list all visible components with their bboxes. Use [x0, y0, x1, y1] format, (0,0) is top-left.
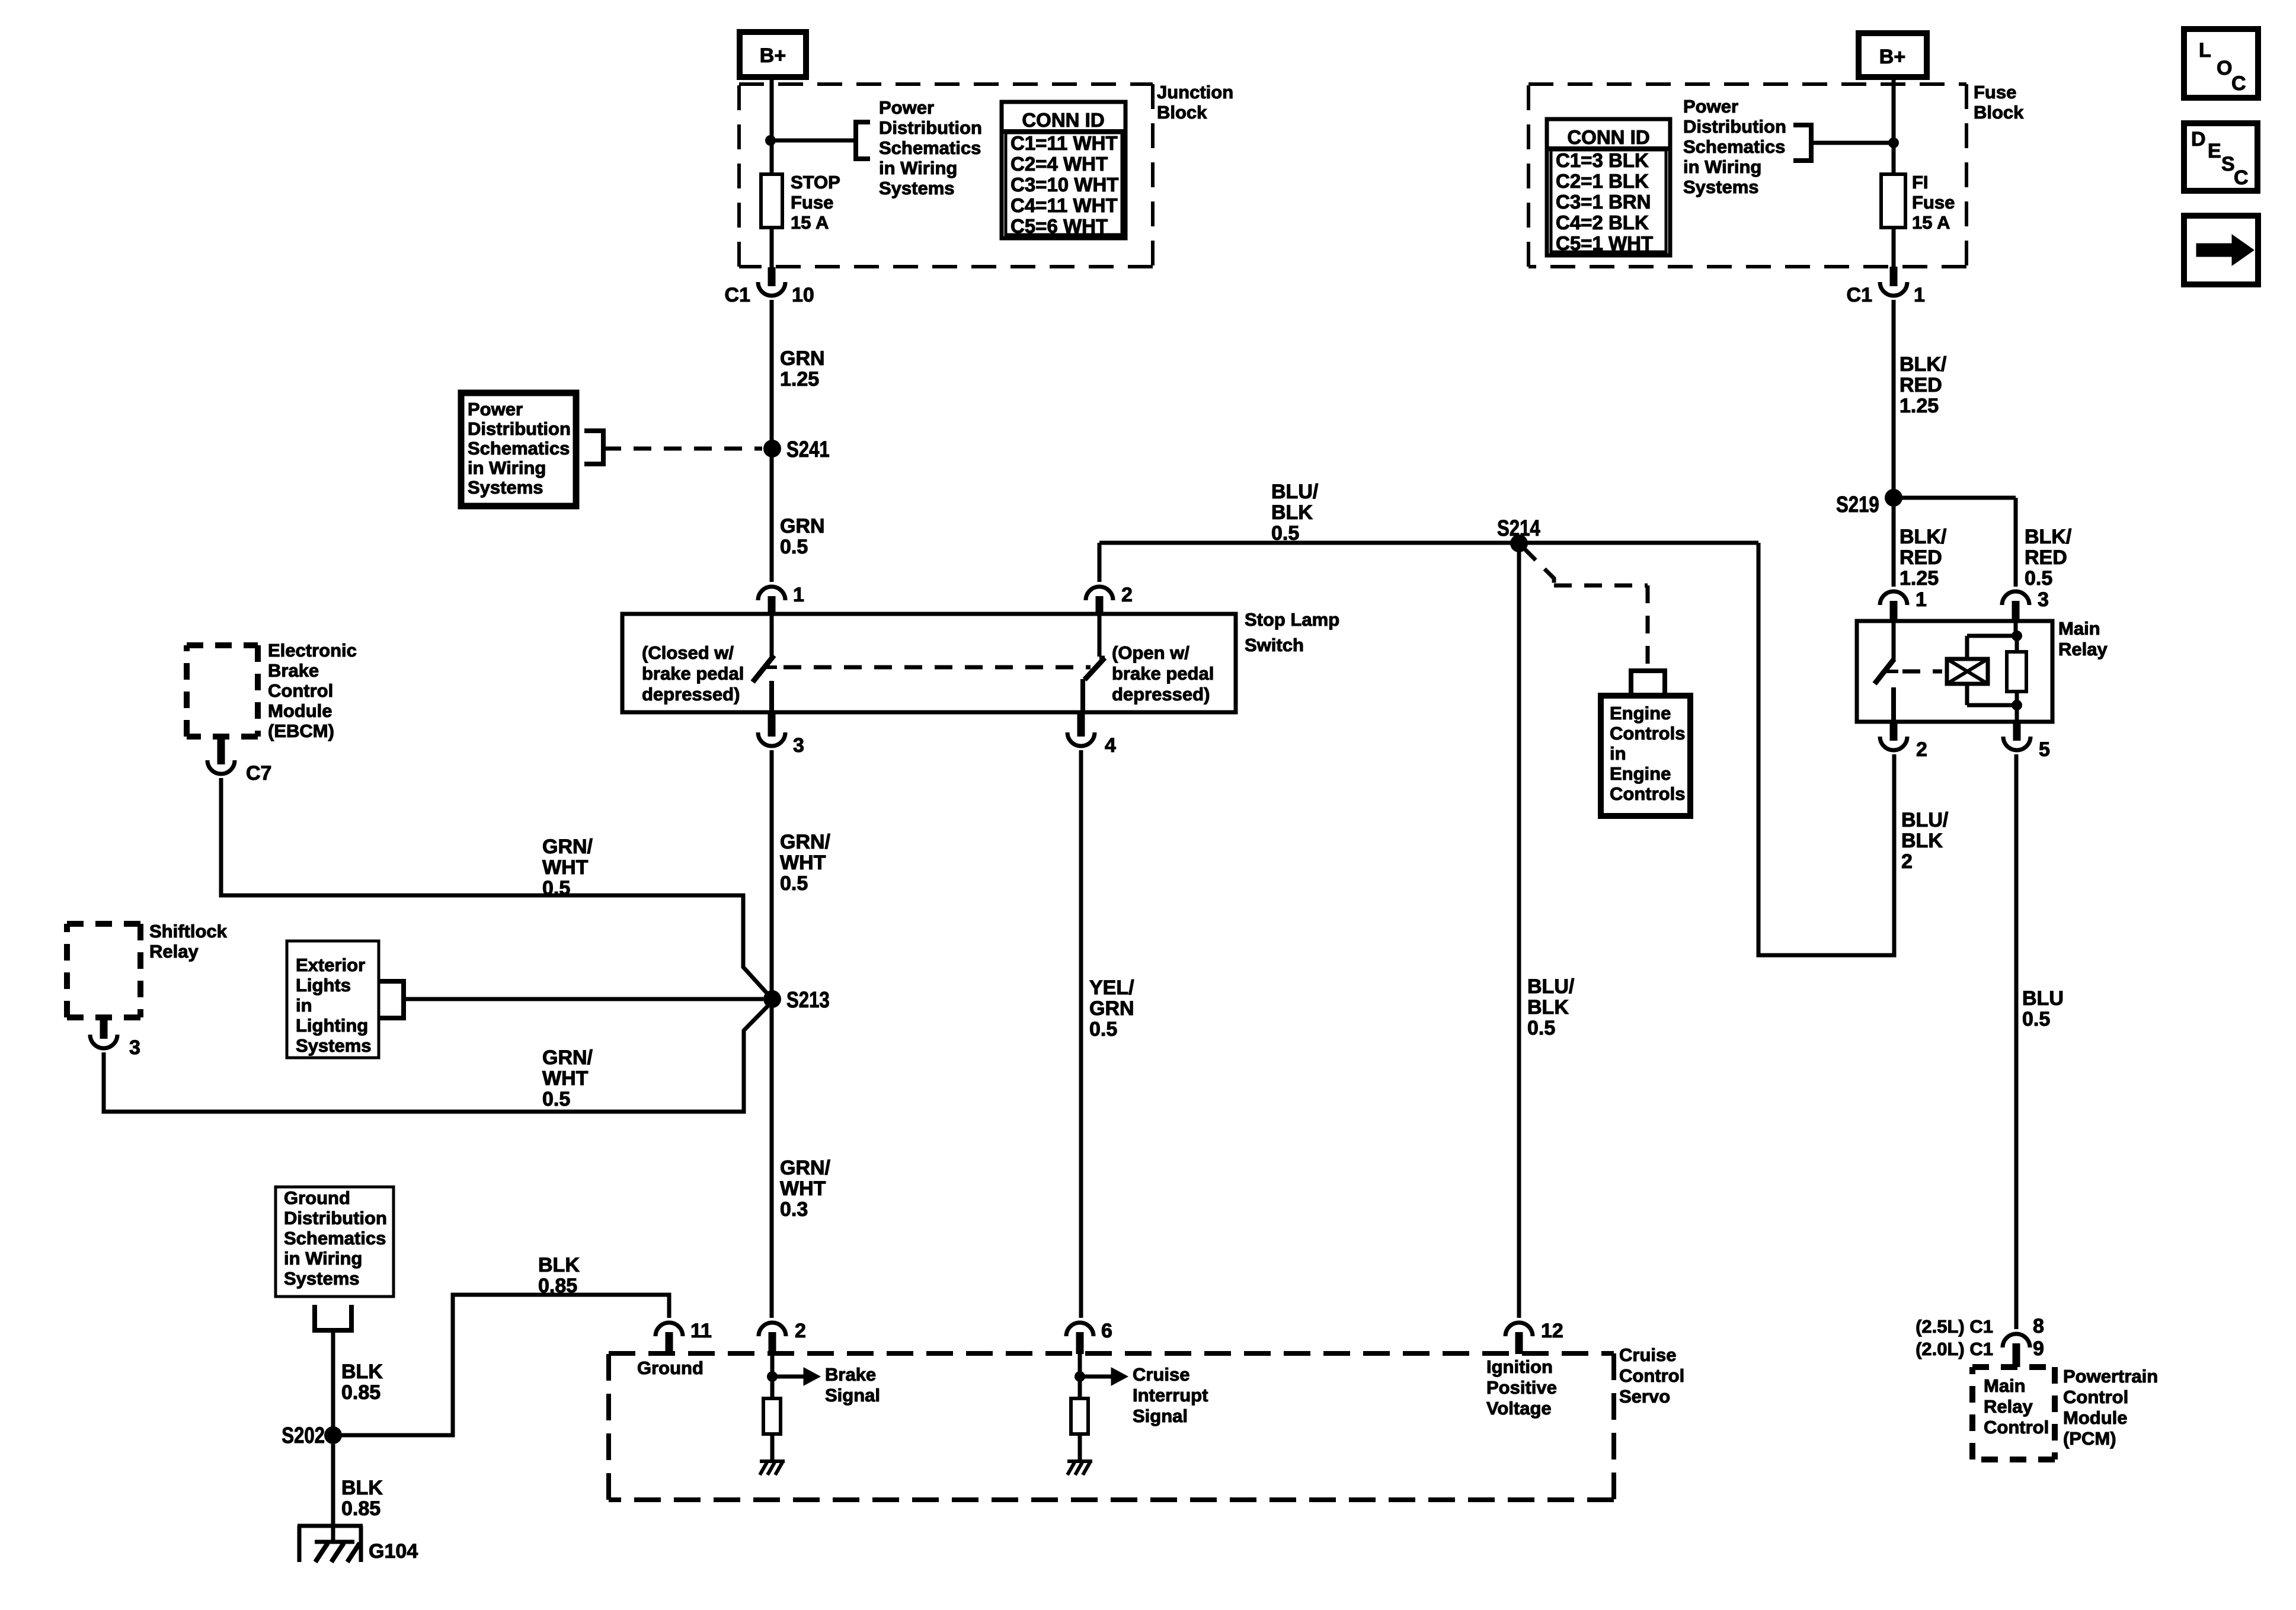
svg-text:Engine: Engine — [1610, 703, 1671, 724]
svg-text:GRN: GRN — [1089, 997, 1134, 1020]
svg-text:WHT: WHT — [542, 1067, 589, 1090]
svg-text:Module: Module — [268, 700, 332, 721]
svg-text:Relay: Relay — [149, 941, 199, 962]
svg-text:BLK/: BLK/ — [1900, 353, 1947, 376]
svg-text:in: in — [1610, 743, 1626, 764]
svg-text:8: 8 — [2033, 1315, 2044, 1337]
svg-text:1.25: 1.25 — [1900, 395, 1939, 417]
svg-text:0.5: 0.5 — [1089, 1018, 1117, 1041]
svg-text:BLU/: BLU/ — [1271, 481, 1319, 503]
svg-text:S: S — [2221, 153, 2235, 175]
svg-text:Brake: Brake — [825, 1364, 876, 1385]
svg-text:(Open w/: (Open w/ — [1112, 642, 1189, 663]
svg-text:10: 10 — [792, 284, 814, 306]
svg-text:GRN/: GRN/ — [780, 831, 831, 853]
svg-text:D: D — [2191, 128, 2206, 151]
svg-text:2: 2 — [795, 1320, 806, 1342]
svg-text:G104: G104 — [369, 1540, 418, 1563]
svg-text:Schematics: Schematics — [879, 137, 981, 158]
svg-text:9: 9 — [2033, 1337, 2044, 1360]
svg-text:Fuse: Fuse — [1974, 82, 2016, 103]
svg-text:0.5: 0.5 — [542, 877, 570, 900]
svg-text:YEL/: YEL/ — [1089, 977, 1134, 999]
svg-text:C5=6 WHT: C5=6 WHT — [1011, 215, 1108, 237]
svg-text:(2.5L) C1: (2.5L) C1 — [1916, 1316, 1993, 1337]
svg-text:BLK: BLK — [341, 1477, 383, 1499]
svg-text:BLU/: BLU/ — [1527, 975, 1575, 998]
svg-text:0.5: 0.5 — [542, 1088, 570, 1110]
svg-text:Electronic: Electronic — [268, 640, 357, 661]
svg-text:BLK: BLK — [538, 1254, 580, 1276]
svg-text:Fuse: Fuse — [791, 192, 833, 213]
svg-text:Schematics: Schematics — [284, 1228, 386, 1249]
svg-text:Systems: Systems — [1683, 177, 1759, 197]
svg-text:BLK/: BLK/ — [2025, 526, 2072, 548]
svg-text:in Wiring: in Wiring — [468, 457, 546, 478]
svg-text:C: C — [2231, 72, 2246, 95]
svg-text:in Wiring: in Wiring — [879, 158, 957, 178]
svg-text:Main: Main — [2058, 618, 2100, 639]
svg-text:C1=11 WHT: C1=11 WHT — [1011, 132, 1118, 154]
svg-text:Schematics: Schematics — [1683, 136, 1785, 157]
svg-text:6: 6 — [1101, 1320, 1112, 1342]
svg-text:1.25: 1.25 — [780, 368, 819, 391]
svg-text:BLK/: BLK/ — [1900, 526, 1947, 548]
svg-text:Schematics: Schematics — [468, 438, 570, 459]
svg-text:Signal: Signal — [825, 1385, 880, 1406]
svg-text:C2=1 BLK: C2=1 BLK — [1556, 170, 1649, 192]
svg-text:Distribution: Distribution — [468, 418, 571, 439]
svg-text:C1=3 BLK: C1=3 BLK — [1556, 149, 1649, 171]
svg-text:S214: S214 — [1497, 516, 1540, 541]
svg-text:RED: RED — [2025, 546, 2067, 569]
svg-text:0.5: 0.5 — [1271, 522, 1299, 545]
svg-text:Signal: Signal — [1133, 1406, 1188, 1426]
svg-text:FI: FI — [1912, 172, 1929, 193]
svg-text:0.85: 0.85 — [341, 1497, 380, 1520]
svg-text:Systems: Systems — [284, 1268, 360, 1289]
svg-text:Main: Main — [1984, 1375, 2026, 1396]
svg-text:Exterior: Exterior — [296, 955, 365, 975]
svg-text:Distribution: Distribution — [879, 117, 982, 138]
svg-text:GRN: GRN — [780, 515, 825, 537]
svg-text:0.5: 0.5 — [780, 872, 808, 895]
svg-text:(EBCM): (EBCM) — [268, 721, 334, 741]
svg-text:Systems: Systems — [879, 178, 955, 199]
svg-text:2: 2 — [1121, 584, 1133, 606]
svg-text:Systems: Systems — [296, 1035, 372, 1056]
svg-text:Relay: Relay — [2058, 639, 2108, 660]
svg-text:Control: Control — [2063, 1387, 2128, 1407]
svg-text:(Closed w/: (Closed w/ — [642, 642, 734, 663]
svg-text:Relay: Relay — [1984, 1396, 2033, 1417]
svg-text:5: 5 — [2039, 738, 2050, 761]
svg-text:Systems: Systems — [468, 477, 543, 498]
svg-text:Control: Control — [1619, 1365, 1684, 1386]
svg-text:15 A: 15 A — [791, 212, 829, 233]
svg-text:Module: Module — [2063, 1407, 2128, 1428]
svg-text:Distribution: Distribution — [284, 1208, 387, 1228]
svg-text:C: C — [2234, 167, 2249, 189]
svg-text:12: 12 — [1541, 1320, 1563, 1342]
svg-text:BLK: BLK — [1901, 830, 1943, 852]
svg-text:0.3: 0.3 — [780, 1198, 808, 1221]
svg-text:BLK: BLK — [341, 1361, 383, 1383]
svg-text:S213: S213 — [786, 988, 830, 1013]
svg-text:GRN/: GRN/ — [542, 836, 593, 858]
svg-text:Positive: Positive — [1486, 1377, 1557, 1398]
svg-text:Power: Power — [879, 97, 934, 118]
svg-text:3: 3 — [793, 734, 804, 757]
svg-text:in Wiring: in Wiring — [1683, 156, 1761, 177]
svg-text:Shiftlock: Shiftlock — [149, 921, 228, 942]
svg-text:S241: S241 — [786, 437, 830, 462]
svg-text:CONN ID: CONN ID — [1022, 109, 1104, 131]
svg-text:Control: Control — [268, 680, 333, 701]
svg-text:BLK: BLK — [1271, 501, 1313, 524]
svg-text:1: 1 — [793, 584, 804, 606]
svg-text:C2=4 WHT: C2=4 WHT — [1011, 153, 1108, 175]
svg-text:0.5: 0.5 — [2022, 1008, 2050, 1030]
svg-text:BLU/: BLU/ — [1901, 809, 1949, 831]
svg-text:4: 4 — [1105, 734, 1116, 757]
svg-text:C3=10 WHT: C3=10 WHT — [1011, 174, 1118, 196]
svg-text:C7: C7 — [246, 762, 271, 785]
svg-text:Ground: Ground — [637, 1358, 703, 1378]
svg-text:S219: S219 — [1836, 492, 1879, 517]
svg-text:GRN/: GRN/ — [542, 1046, 593, 1069]
svg-text:Engine: Engine — [1610, 763, 1671, 784]
svg-text:Junction: Junction — [1157, 82, 1233, 103]
svg-text:C4=11 WHT: C4=11 WHT — [1011, 194, 1118, 216]
svg-text:3: 3 — [129, 1036, 140, 1059]
svg-text:Controls: Controls — [1610, 723, 1685, 744]
svg-text:1: 1 — [1914, 284, 1925, 306]
svg-text:Cruise: Cruise — [1133, 1364, 1189, 1385]
svg-text:in Wiring: in Wiring — [284, 1248, 362, 1269]
svg-text:Brake: Brake — [268, 660, 319, 681]
svg-text:Lighting: Lighting — [296, 1015, 368, 1036]
svg-text:brake pedal: brake pedal — [1112, 663, 1214, 684]
svg-text:1: 1 — [1916, 588, 1927, 611]
svg-text:Control: Control — [1984, 1417, 2049, 1438]
svg-text:Power: Power — [1683, 96, 1738, 117]
svg-text:C1: C1 — [1847, 284, 1872, 306]
svg-text:Ignition: Ignition — [1486, 1356, 1553, 1377]
svg-text:Block: Block — [1974, 102, 2024, 123]
svg-text:WHT: WHT — [780, 852, 826, 874]
svg-text:0.5: 0.5 — [780, 536, 808, 558]
svg-text:Interrupt: Interrupt — [1133, 1385, 1208, 1406]
svg-text:C5=1 WHT: C5=1 WHT — [1556, 232, 1653, 254]
svg-text:Controls: Controls — [1610, 783, 1685, 804]
svg-text:O: O — [2217, 57, 2232, 79]
svg-text:0.5: 0.5 — [1527, 1017, 1555, 1039]
svg-text:BLK: BLK — [1527, 996, 1569, 1019]
svg-text:brake pedal: brake pedal — [642, 663, 744, 684]
svg-text:CONN ID: CONN ID — [1567, 126, 1649, 148]
svg-text:0.5: 0.5 — [2025, 567, 2052, 590]
svg-text:Stop Lamp: Stop Lamp — [1245, 609, 1339, 630]
svg-text:(PCM): (PCM) — [2063, 1428, 2116, 1449]
svg-text:depressed): depressed) — [642, 684, 740, 705]
svg-text:0.85: 0.85 — [341, 1381, 380, 1404]
svg-text:Lights: Lights — [296, 975, 351, 996]
svg-text:1.25: 1.25 — [1900, 567, 1939, 590]
svg-text:(2.0L) C1: (2.0L) C1 — [1916, 1339, 1993, 1359]
svg-text:C3=1 BRN: C3=1 BRN — [1556, 191, 1651, 213]
svg-text:3: 3 — [2038, 588, 2049, 611]
svg-text:in: in — [296, 995, 312, 1016]
svg-text:2: 2 — [1916, 738, 1927, 761]
svg-text:Switch: Switch — [1245, 635, 1304, 655]
svg-text:depressed): depressed) — [1112, 684, 1210, 705]
svg-text:BLU: BLU — [2022, 987, 2064, 1010]
svg-text:E: E — [2208, 140, 2221, 162]
svg-text:WHT: WHT — [780, 1177, 826, 1200]
svg-text:2: 2 — [1901, 850, 1913, 873]
svg-text:0.85: 0.85 — [538, 1275, 577, 1297]
svg-text:Power: Power — [468, 399, 523, 420]
svg-text:RED: RED — [1900, 374, 1942, 396]
svg-text:Block: Block — [1157, 102, 1207, 123]
svg-text:L: L — [2199, 39, 2211, 62]
svg-text:15 A: 15 A — [1912, 212, 1950, 233]
svg-text:Powertrain: Powertrain — [2063, 1366, 2158, 1387]
svg-text:11: 11 — [690, 1320, 712, 1342]
svg-text:STOP: STOP — [791, 172, 840, 193]
svg-text:B+: B+ — [1879, 46, 1905, 68]
svg-text:GRN/: GRN/ — [780, 1157, 831, 1179]
svg-text:Ground: Ground — [284, 1188, 350, 1208]
svg-text:B+: B+ — [760, 44, 786, 67]
svg-text:S202: S202 — [282, 1423, 325, 1448]
svg-text:RED: RED — [1900, 546, 1942, 569]
svg-text:C4=2 BLK: C4=2 BLK — [1556, 212, 1649, 233]
svg-text:C1: C1 — [725, 284, 750, 306]
svg-text:Distribution: Distribution — [1683, 116, 1786, 137]
svg-text:Voltage: Voltage — [1486, 1398, 1552, 1419]
svg-text:Servo: Servo — [1619, 1386, 1670, 1407]
svg-text:WHT: WHT — [542, 856, 589, 879]
svg-text:Cruise: Cruise — [1619, 1345, 1676, 1365]
svg-text:Fuse: Fuse — [1912, 192, 1955, 213]
svg-text:GRN: GRN — [780, 347, 825, 370]
